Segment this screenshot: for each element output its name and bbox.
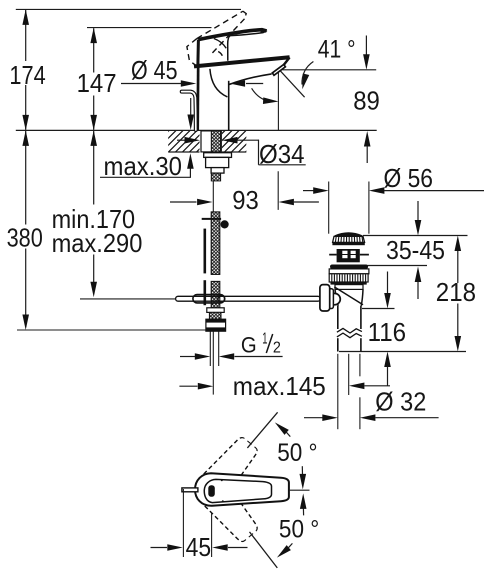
dimension 93 [170, 185, 319, 215]
dimension 147 [77, 28, 117, 131]
pull rod lower part [204, 229, 207, 274]
pipe break symbol [336, 329, 362, 339]
waste side pins [329, 254, 369, 256]
horizontal reference at aerator level [282, 69, 376, 71]
handle top view black detail [208, 485, 215, 497]
50deg upper diagonal [247, 412, 277, 448]
dashed rotated handle down [191, 469, 263, 546]
svg-text:Ø 56: Ø 56 [384, 163, 434, 193]
waste adjuster block with windows [337, 249, 360, 262]
svg-text:50 °: 50 ° [277, 439, 317, 467]
svg-text:380: 380 [7, 223, 43, 253]
svg-text:174: 174 [9, 60, 45, 90]
svg-text:41 °: 41 ° [318, 36, 356, 64]
dimension 380 [7, 130, 43, 330]
waste knurled ring [329, 274, 368, 282]
svg-text:147: 147 [77, 68, 117, 98]
hose crossbar [202, 218, 221, 220]
lever seam curve [214, 39, 226, 49]
waste body diagonal seam [334, 287, 363, 305]
flexible hose upper segment [211, 212, 220, 275]
waste outlet pipe [337, 306, 339, 330]
dimension 35-45 [363, 201, 468, 299]
waste plug ribbed crown [333, 236, 365, 242]
reference line top (lever raised level) [16, 8, 241, 10]
threaded shank in countertop hole [201, 131, 221, 152]
svg-text:max.290: max.290 [52, 228, 143, 258]
waste ball rod inner nut [328, 289, 334, 309]
label Ø34 with leader [177, 137, 306, 169]
reference line hose-link level [80, 298, 176, 300]
lever base left edge [196, 40, 200, 64]
reference line lever level [87, 27, 212, 29]
pop-up waste plug dome [335, 233, 363, 236]
pull rod ball knob [221, 220, 229, 228]
clevis ball [218, 295, 225, 302]
waste angled body [335, 289, 338, 305]
waste crown base band [332, 242, 364, 245]
svg-text:Ø 45: Ø 45 [131, 55, 178, 85]
washer / rod guide bar [204, 153, 232, 158]
handle top view dots [221, 479, 223, 481]
reference line bottom (hose end level) [17, 329, 206, 331]
svg-text:116: 116 [368, 317, 407, 347]
reference line waste hinge level [362, 308, 395, 310]
dimension 218 [436, 236, 476, 352]
faucet centreline extension below fitting [212, 332, 214, 395]
svg-text:89: 89 [353, 85, 380, 115]
50deg arc arrows at centreline [301, 466, 303, 475]
waste ball rod outer nut [320, 285, 330, 311]
svg-text:max.145: max.145 [233, 371, 326, 401]
dimension Ø 56 [303, 163, 484, 234]
waste ball rod ball [329, 293, 340, 304]
handle top view outline [195, 473, 289, 506]
svg-text:35-45: 35-45 [386, 235, 445, 265]
svg-text:93: 93 [232, 185, 259, 215]
svg-text:50 °: 50 ° [279, 516, 319, 544]
dimension max.145 [179, 371, 390, 401]
svg-text:1: 1 [262, 330, 267, 347]
faucet body right edge [228, 81, 230, 131]
dimension 45 bottom [151, 489, 248, 562]
dimension 174 [9, 9, 45, 130]
centreline between shank and hose [212, 181, 214, 212]
label Ø 45 with arrows [121, 55, 263, 87]
lever blade underside and neck [228, 31, 267, 61]
faucet spout top edge [194, 57, 290, 66]
swivel arc arrow [252, 88, 272, 101]
dashed rotated handle up [191, 433, 263, 510]
50deg arc arrow lower diagonal [275, 545, 291, 560]
lever blade top stroke [198, 30, 266, 40]
faucet waterway arc [210, 69, 228, 97]
stream direction line [280, 70, 305, 97]
faucet body left edge [196, 64, 199, 131]
countertop bottom line [168, 151, 246, 153]
aerator vertical extension [277, 71, 279, 210]
waste flange bar [330, 265, 368, 269]
svg-text:45: 45 [186, 532, 212, 562]
handle rod tip top view [182, 488, 198, 492]
pull rod knob hook at faucet [182, 92, 196, 130]
G 1/2 fitting stack [207, 308, 224, 313]
linkage clevis [193, 295, 225, 303]
lever blade tip [261, 28, 268, 33]
spout underside curve [229, 74, 272, 85]
countertop top line [16, 129, 377, 131]
spout beak right edge [284, 57, 290, 64]
shank thread below counter [211, 152, 220, 181]
waste ring bottom band [331, 282, 367, 285]
svg-text:218: 218 [436, 277, 476, 307]
waste neck [335, 285, 363, 290]
waste flange cylinder [329, 269, 369, 274]
svg-text:Ø34: Ø34 [259, 139, 305, 169]
label G 1/2 [180, 330, 283, 366]
dashed lever raised outline [187, 11, 246, 64]
svg-text:2: 2 [273, 340, 281, 357]
svg-text:G: G [241, 332, 257, 357]
reference line pipe end level [339, 351, 466, 353]
50deg lower diagonal [250, 532, 278, 568]
spout aerator slab [272, 64, 285, 75]
pop-up linkage rod [176, 296, 321, 301]
flexible hose lower segment [211, 281, 220, 307]
svg-text:max.30: max.30 [104, 151, 183, 181]
mounting nut [206, 157, 229, 167]
dimension Ø 32 [304, 354, 439, 429]
dimension 116 [368, 272, 407, 386]
dimension 89 [353, 36, 380, 164]
handle top view inner line [204, 479, 271, 502]
label 41 deg [299, 36, 356, 90]
pipe below break [337, 338, 339, 351]
dimension min.170 max.290 [52, 130, 143, 297]
label max.30 with arrows [100, 98, 194, 181]
50deg arc arrow upper diagonal [273, 420, 289, 435]
svg-text:Ø 32: Ø 32 [375, 386, 426, 416]
handle centreline right [289, 489, 310, 491]
